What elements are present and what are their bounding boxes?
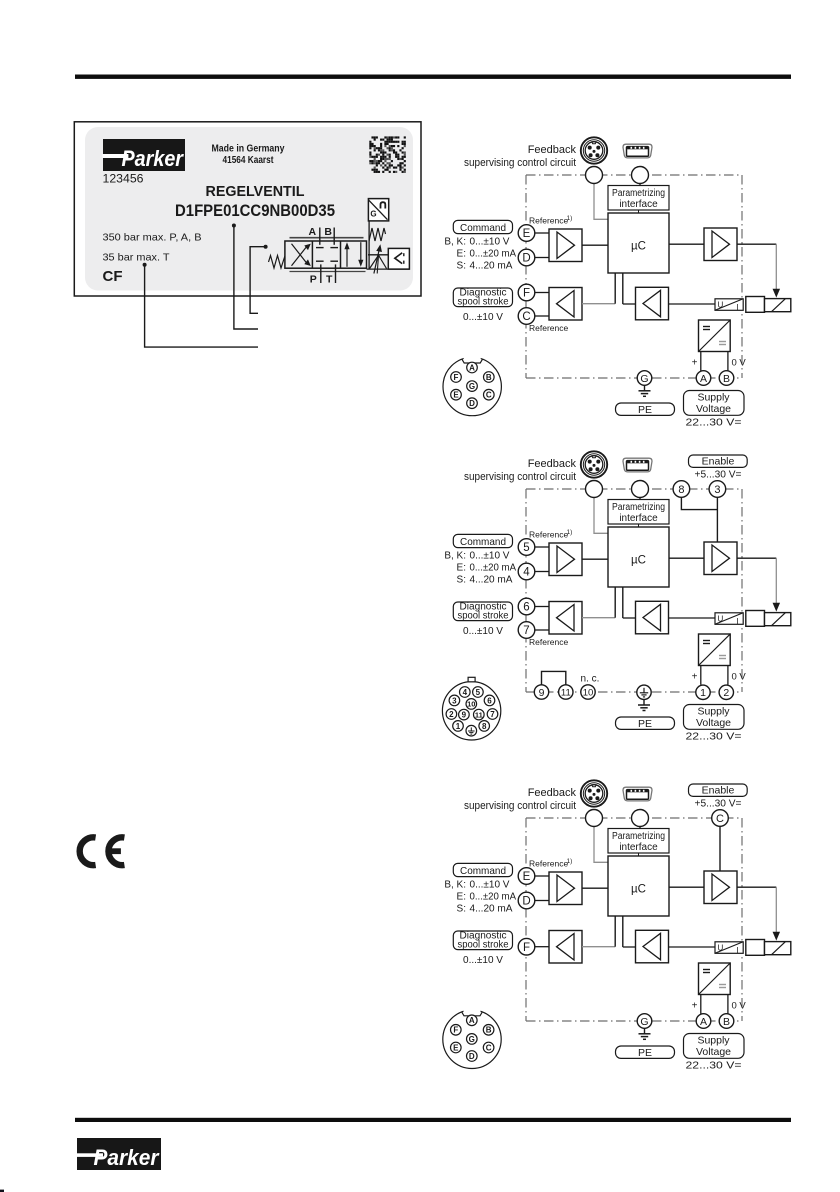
label: command signal ranges [444, 880, 516, 915]
pin G [467, 1034, 478, 1045]
svg-text:+: + [692, 1001, 698, 1012]
label: Diagnostic spool stroke [453, 287, 512, 307]
port A (supply +) [696, 1014, 711, 1029]
label: diagnostic range 0...±10 V [463, 312, 503, 323]
label: Feedback supervising control circuit [464, 144, 576, 169]
jumper wire ports 9-11 [542, 671, 566, 685]
port 1 (supply +) [696, 685, 710, 699]
svg-text:P: P [310, 273, 317, 285]
svg-text:supervising control circuit: supervising control circuit [464, 800, 576, 812]
ground symbol below port G [639, 1028, 651, 1039]
pin 6 [484, 695, 495, 706]
port B (supply 0V) [719, 1014, 734, 1029]
transducer U/I box [715, 942, 743, 955]
M12 round connector icon [581, 137, 607, 163]
wire output amplifier to solenoid [737, 887, 779, 939]
parallel arrows cell [345, 242, 363, 267]
wire microcontroller to output amplifier [669, 557, 704, 559]
label: Made in Germany [212, 143, 285, 155]
label: command signal ranges [444, 237, 516, 272]
label: 0 V [732, 358, 747, 369]
svg-text:B: B [486, 1026, 492, 1035]
wire M12 circle to microcontroller [594, 827, 608, 863]
svg-text:µC: µC [631, 241, 646, 253]
label: PE [616, 717, 675, 730]
input amplifier [549, 543, 582, 576]
wire converter to supply port 0V [727, 995, 729, 1014]
svg-text:F: F [454, 373, 459, 382]
svg-text:B, K:: B, K: [444, 551, 466, 562]
port F (diagnostic) [518, 938, 535, 955]
wire command port D to input amplifier [535, 257, 549, 259]
svg-text:7: 7 [490, 710, 495, 719]
input amplifier [549, 872, 582, 905]
svg-text:C: C [486, 1043, 492, 1052]
wire input amplifier to microcontroller [582, 887, 608, 889]
feedback link line [368, 221, 370, 269]
label: +5...30 V= [695, 799, 742, 810]
svg-text:0...±10 V: 0...±10 V [463, 312, 503, 323]
svg-text:REGELVENTIL: REGELVENTIL [206, 184, 305, 200]
label: 350 bar max. P, A, B [103, 232, 202, 244]
wire converter to supply port 0V [727, 666, 729, 685]
label: Supply Voltage [684, 705, 745, 730]
diagnostic output amplifier [549, 288, 582, 321]
node: USB port on border [632, 810, 649, 827]
input amplifier [549, 229, 582, 262]
svg-text:11: 11 [475, 710, 483, 719]
diagnostic output amplifier [549, 931, 582, 964]
port 5 (command +) [518, 539, 535, 556]
svg-text:7: 7 [523, 625, 529, 637]
svg-text:I: I [737, 303, 739, 312]
svg-text:I: I [737, 617, 739, 626]
svg-text:supervising control circuit: supervising control circuit [464, 471, 576, 483]
svg-text:F: F [523, 288, 530, 300]
port 7 (reference) [518, 622, 535, 639]
label: + [692, 1001, 698, 1012]
svg-text:Enable: Enable [702, 456, 735, 468]
label: Reference 1) [529, 215, 572, 226]
feedback amplifier [636, 930, 669, 963]
svg-text:B, K:: B, K: [444, 237, 466, 248]
svg-text:41564 Kaarst: 41564 Kaarst [223, 154, 274, 166]
wire enable port 3 to output amplifier [716, 497, 718, 542]
wire parametrizing interface to microcontroller [638, 853, 640, 856]
microcontroller U1 box [608, 527, 669, 587]
pilot spring [369, 228, 386, 241]
label: 22...30 V= [686, 731, 742, 743]
label: Enable [689, 455, 748, 468]
svg-text:µC: µC [631, 884, 646, 896]
control electronics enclosure dash-dot border [526, 175, 742, 378]
label: Reference 1) [529, 858, 572, 869]
label: Reference [529, 323, 568, 333]
svg-text:A: A [700, 373, 707, 385]
DC/DC power converter [699, 320, 731, 352]
pin 10 [466, 699, 477, 710]
svg-text:E: E [453, 391, 459, 400]
label: CF [103, 268, 123, 285]
label: Diagnostic spool stroke [453, 930, 512, 950]
pin F [451, 1025, 462, 1036]
wire enable port C to output amplifier [719, 826, 721, 871]
port 10 (not connected) [581, 685, 595, 699]
wire command port D to input amplifier [535, 900, 549, 902]
svg-text:0...±10 V: 0...±10 V [463, 955, 503, 966]
wire command port 4 to input amplifier [535, 571, 549, 573]
output power amplifier [704, 542, 737, 575]
svg-text:Parametrizing: Parametrizing [612, 502, 665, 513]
svg-text:interface: interface [619, 199, 658, 210]
svg-text:Reference: Reference [529, 858, 568, 868]
svg-text:Parametrizing: Parametrizing [612, 831, 665, 842]
port C (reference) [518, 308, 535, 325]
svg-text:0...±10 V: 0...±10 V [463, 626, 503, 637]
pin 4 [460, 687, 471, 698]
wire converter to supply port + [700, 352, 702, 371]
svg-text:+: + [692, 672, 698, 683]
svg-text:0...±20 mA: 0...±20 mA [470, 249, 517, 260]
svg-text:Feedback: Feedback [528, 458, 577, 470]
svg-text:C: C [716, 813, 724, 825]
pin 3 [449, 695, 460, 706]
parametrizing interface box [608, 500, 669, 525]
wire USB port to parametrizing interface [639, 184, 641, 187]
pin 7 [487, 709, 498, 720]
label: Command [453, 863, 512, 876]
feedback amplifier [636, 287, 669, 320]
wire command port E to input amplifier [535, 875, 549, 877]
svg-text:Command: Command [460, 865, 506, 877]
svg-text:0 V: 0 V [732, 672, 747, 683]
svg-text:0 V: 0 V [732, 1001, 747, 1012]
wire feedback amplifier to microcontroller [623, 916, 636, 947]
svg-text:n. c.: n. c. [581, 674, 600, 685]
svg-text:+: + [692, 358, 698, 369]
bottom rule [75, 1118, 791, 1122]
wire diagnostic amplifier to microcontroller [582, 273, 615, 304]
serial number 123456 [103, 174, 144, 186]
wire USB port to parametrizing interface [639, 498, 641, 501]
svg-text:5: 5 [523, 542, 529, 554]
mini-USB connector icon [623, 787, 652, 801]
pin C [483, 1042, 494, 1053]
label: Enable [689, 784, 748, 797]
svg-text:G: G [370, 210, 376, 219]
11+PE connector face outline [442, 677, 500, 740]
svg-text:Command: Command [460, 536, 506, 548]
svg-text:8: 8 [482, 722, 487, 731]
svg-text:F: F [523, 942, 530, 954]
wire diagnostic amplifier to microcontroller [582, 587, 615, 618]
wire transducer to feedback amplifier [669, 946, 716, 948]
svg-text:A: A [309, 226, 317, 238]
svg-text:D1FPE01CC9NB00D35: D1FPE01CC9NB00D35 [175, 202, 335, 220]
label: Supply Voltage [684, 391, 745, 416]
svg-text:Voltage: Voltage [696, 717, 731, 729]
svg-text:E:: E: [457, 892, 466, 903]
svg-text:G: G [640, 373, 648, 385]
label: command signal ranges [444, 551, 516, 586]
svg-text:Voltage: Voltage [696, 403, 731, 415]
svg-text:PE: PE [638, 718, 652, 730]
svg-text:µC: µC [631, 555, 646, 567]
svg-text:supervising control circuit: supervising control circuit [464, 157, 576, 169]
svg-text:B: B [486, 373, 492, 382]
wire diagnostic port 6 to diagnostic amplifier [535, 606, 549, 608]
svg-text:A: A [469, 363, 475, 372]
svg-text:Made in Germany: Made in Germany [212, 143, 285, 155]
solenoid armature block [746, 297, 765, 313]
svg-text:Feedback: Feedback [528, 144, 577, 156]
svg-text:I: I [737, 946, 739, 955]
svg-text:spool stroke: spool stroke [458, 296, 510, 307]
svg-text:G: G [469, 382, 475, 391]
control electronics enclosure dash-dot border [526, 818, 742, 1021]
svg-text:D: D [522, 253, 530, 265]
adjustment arrow [374, 245, 382, 273]
pin A [467, 362, 478, 373]
leader line from pressure rating [143, 263, 258, 347]
port 4 (command -) [518, 563, 535, 580]
svg-text:D: D [469, 1052, 475, 1061]
parametrizing interface box [608, 186, 669, 211]
pin 9 [459, 709, 470, 720]
svg-text:9: 9 [462, 710, 467, 719]
label ports P T [310, 273, 333, 285]
svg-text:F: F [453, 1026, 458, 1035]
svg-text:A: A [469, 1016, 475, 1025]
svg-text:11: 11 [561, 687, 571, 698]
solenoid armature block [746, 611, 765, 627]
port G (protective earth) [637, 371, 652, 386]
label: + [692, 358, 698, 369]
label: +5...30 V= [695, 470, 742, 481]
pin A [467, 1015, 478, 1026]
svg-text:C: C [486, 391, 492, 400]
M12 round connector icon [581, 780, 607, 806]
label: Command [453, 534, 512, 547]
microcontroller U1 box [608, 213, 669, 273]
proportional solenoid coil [765, 942, 791, 955]
svg-text:+5...30 V=: +5...30 V= [695, 470, 742, 481]
label: diagnostic range 0...±10 V [463, 626, 503, 637]
wire M12 circle to microcontroller [594, 498, 608, 534]
label: PE [616, 1046, 675, 1059]
left return spring [269, 256, 285, 269]
data matrix code [369, 136, 406, 173]
svg-text:0...±20 mA: 0...±20 mA [470, 892, 517, 903]
svg-text:spool stroke: spool stroke [458, 610, 510, 621]
svg-text:Reference: Reference [529, 529, 568, 539]
svg-text:1): 1) [567, 858, 573, 865]
svg-text:Reference: Reference [529, 323, 568, 333]
pilot solenoid box [388, 248, 409, 269]
mini-USB connector icon [623, 144, 652, 158]
pin 1 [453, 721, 464, 732]
pilot valve tent [368, 255, 388, 274]
svg-text:0...±20 mA: 0...±20 mA [470, 563, 517, 574]
wire converter to supply port + [700, 995, 702, 1014]
label: Feedback supervising control circuit [464, 458, 576, 483]
svg-text:Parker: Parker [94, 1145, 160, 1170]
label: + [692, 672, 698, 683]
pin E [451, 389, 462, 400]
svg-text:350 bar max. P, A, B: 350 bar max. P, A, B [103, 232, 202, 244]
svg-text:B: B [723, 1016, 730, 1028]
wire USB port to parametrizing interface [639, 827, 641, 830]
label: Command [453, 220, 512, 233]
svg-text:22...30 V=: 22...30 V= [686, 1060, 742, 1072]
svg-text:Voltage: Voltage [696, 1046, 731, 1058]
svg-text:Reference: Reference [529, 215, 568, 225]
svg-text:10: 10 [467, 700, 475, 709]
svg-text:35 bar max. T: 35 bar max. T [103, 252, 171, 264]
valve symbol: parallel line above body [290, 237, 364, 239]
leader line from model code [232, 224, 258, 330]
svg-text:E:: E: [457, 563, 466, 574]
pin D [467, 1051, 478, 1062]
svg-text:E:: E: [457, 249, 466, 260]
solenoid armature block [746, 940, 765, 956]
node: USB port on border [632, 167, 649, 184]
svg-text:interface: interface [619, 513, 658, 524]
label: n. c. [581, 674, 600, 685]
nameplate outer border [74, 122, 421, 296]
svg-text:9: 9 [539, 687, 545, 699]
pin F [451, 372, 462, 383]
svg-text:0...±10 V: 0...±10 V [470, 551, 510, 562]
pin G [467, 381, 478, 392]
position feedback transducer box [368, 199, 388, 221]
node: USB port on border [632, 481, 649, 498]
control electronics enclosure dash-dot border [526, 489, 742, 692]
svg-text:Feedback: Feedback [528, 787, 577, 799]
node: feedback port on border [586, 167, 603, 184]
svg-text:U: U [718, 614, 724, 623]
svg-text:U: U [718, 300, 724, 309]
svg-text:G: G [640, 1016, 648, 1028]
Parker logo on nameplate [102, 139, 185, 171]
pin 2 [446, 709, 457, 720]
wire microcontroller to output amplifier [669, 243, 704, 245]
port D (command -) [518, 892, 535, 909]
svg-text:Enable: Enable [702, 785, 735, 797]
ground symbol below port G [639, 385, 651, 396]
svg-text:S:: S: [457, 904, 466, 915]
port 2 (supply 0V) [719, 685, 733, 699]
wire feedback amplifier to microcontroller [623, 587, 636, 618]
svg-text:0 V: 0 V [732, 358, 747, 369]
node: feedback port on border [586, 810, 603, 827]
label: Reference 1) [529, 529, 572, 540]
svg-text:D: D [469, 399, 475, 408]
M12 round connector icon [581, 451, 607, 477]
transducer U/I box [715, 299, 743, 312]
label: 41564 Kaarst [223, 154, 274, 166]
page corner printing mark [0, 1190, 4, 1192]
svg-text:B: B [723, 373, 730, 385]
svg-text:0...±10 V: 0...±10 V [470, 237, 510, 248]
port D (command -) [518, 249, 535, 266]
parametrizing interface box [608, 829, 669, 854]
wire transducer to feedback amplifier [669, 303, 716, 305]
wire output amplifier to solenoid [737, 244, 779, 296]
port F (diagnostic) [518, 284, 535, 301]
port 11 [559, 685, 573, 699]
svg-text:B: B [324, 226, 332, 238]
port 6 (diagnostic) [518, 598, 535, 615]
microcontroller U1 box [608, 856, 669, 916]
port E (command +) [518, 868, 535, 885]
proportional solenoid coil [765, 613, 791, 626]
svg-text:S:: S: [457, 261, 466, 272]
proportional solenoid coil [765, 299, 791, 312]
feedback amplifier [636, 601, 669, 634]
svg-text:1): 1) [567, 215, 573, 222]
svg-text:interface: interface [619, 842, 658, 853]
diagnostic output amplifier [549, 602, 582, 635]
svg-text:1): 1) [567, 529, 573, 536]
output power amplifier [704, 228, 737, 261]
wire feedback amplifier to microcontroller [623, 273, 636, 304]
svg-text:1: 1 [456, 722, 461, 731]
svg-text:2: 2 [723, 687, 729, 699]
svg-text:4...20 mA: 4...20 mA [470, 575, 513, 586]
port A (supply +) [696, 371, 711, 386]
wire reference port to diagnostic amplifier [535, 629, 549, 631]
svg-text:22...30 V=: 22...30 V= [686, 417, 742, 429]
wire input amplifier to microcontroller [582, 244, 608, 246]
svg-text:Supply: Supply [697, 392, 730, 404]
port B (supply 0V) [719, 371, 734, 386]
svg-text:22...30 V=: 22...30 V= [686, 731, 742, 743]
wire microcontroller to output amplifier [669, 886, 704, 888]
transducer U/I box [715, 613, 743, 626]
svg-text:10: 10 [583, 687, 594, 698]
wire converter to supply port 0V [727, 352, 729, 371]
wire reference port to diagnostic amplifier [535, 315, 549, 317]
svg-text:6: 6 [487, 696, 492, 705]
svg-text:+5...30 V=: +5...30 V= [695, 799, 742, 810]
svg-text:0...±10 V: 0...±10 V [470, 880, 510, 891]
pin PE earth [466, 725, 477, 736]
svg-text:G: G [469, 1035, 475, 1044]
svg-text:4...20 mA: 4...20 mA [470, 904, 513, 915]
svg-text:A: A [700, 1016, 707, 1028]
nameplate gray face [85, 127, 413, 291]
label: Feedback supervising control circuit [464, 787, 576, 812]
svg-text:T: T [326, 273, 333, 285]
svg-text:U: U [718, 943, 724, 952]
label: Reference [529, 637, 568, 647]
wire M12 circle to microcontroller [594, 184, 608, 220]
port 3 (enable) [709, 481, 726, 498]
wire input amplifier to microcontroller [582, 558, 608, 560]
svg-text:D: D [522, 896, 530, 908]
svg-text:123456: 123456 [103, 174, 144, 186]
pin 8 [479, 721, 490, 732]
leader line from valve symbol [250, 245, 268, 314]
Parker footer logo [75, 1138, 161, 1170]
label: 0 V [732, 672, 747, 683]
CE mark [80, 837, 125, 865]
title REGELVENTIL [206, 184, 305, 200]
port PE (earth) on border [637, 685, 651, 699]
port 9 [534, 685, 548, 699]
pin C [484, 389, 495, 400]
